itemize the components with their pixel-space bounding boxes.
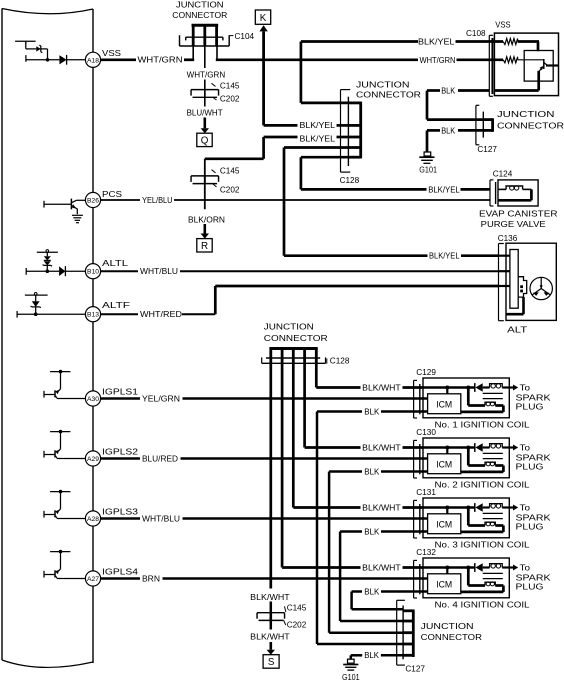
svg-text:No. 2 IGNITION COIL: No. 2 IGNITION COIL: [435, 480, 530, 490]
wire WHT/BLU from IGPLS3: [101, 517, 140, 520]
wire BLK/YEL from elbow to C108: [301, 40, 418, 43]
primary winding No.3: [490, 504, 503, 508]
wire WHT/GRN to junction connector C104: [184, 58, 194, 61]
wire YEL/BLU from PCS pin B26: [101, 199, 140, 201]
connector C108 bracket: [488, 35, 490, 96]
ECU internal ALTL double zener: [46, 252, 48, 256]
ALT ground return: [522, 297, 525, 314]
svg-text:To: To: [520, 443, 531, 453]
wire BLK/YEL from C128 to K-line: [264, 124, 298, 127]
svg-text:B13: B13: [87, 312, 99, 319]
svg-text:ICM: ICM: [436, 399, 452, 410]
svg-text:K: K: [260, 13, 267, 24]
svg-text:C129: C129: [416, 368, 436, 377]
wire to spark plug No.2: [502, 446, 513, 448]
svg-text:C127: C127: [405, 665, 425, 674]
node coil 1 secondary tap: [466, 386, 470, 390]
junction connector C127 (top) bracket: [475, 105, 477, 145]
page reference box S: [263, 655, 279, 669]
chassis ground at PCS driver: [72, 214, 83, 216]
resistor R2 in VSS sensor: [503, 57, 517, 63]
svg-text:BLK: BLK: [364, 407, 379, 417]
svg-text:CONNECTOR: CONNECTOR: [421, 632, 482, 642]
junction connector C127 (bottom) bracket: [396, 600, 398, 665]
svg-text:ALTF: ALTF: [102, 300, 130, 310]
node coil 4 secondary tap: [466, 566, 470, 570]
svg-text:A30: A30: [87, 396, 99, 403]
svg-text:CONNECTOR: CONNECTOR: [172, 10, 227, 20]
svg-text:C202: C202: [220, 94, 240, 103]
svg-text:R: R: [201, 241, 208, 252]
connector C129 bracket: [413, 380, 415, 418]
transformer core No.2: [483, 452, 503, 454]
svg-text:C202: C202: [220, 186, 240, 195]
svg-text:BLK: BLK: [364, 467, 379, 477]
wire BLK/WHT pin feed No.1: [423, 386, 475, 388]
wire ICM supply stub No.1: [446, 388, 448, 394]
arrow to R: [204, 224, 207, 234]
svg-text:WHT/BLU: WHT/BLU: [140, 266, 178, 276]
wire WHT/GRN from C104 to gauge VSS sensor: [216, 46, 218, 60]
svg-text:WHT/GRN: WHT/GRN: [420, 55, 456, 65]
connector C136 bracket: [498, 244, 500, 321]
junction connector C128 (horizontal) mating halves: [266, 357, 320, 359]
wire YEL/BLU to EVAP purge valve: [174, 199, 490, 201]
ECU pin B13: [85, 307, 100, 322]
svg-text:ALT: ALT: [507, 325, 528, 335]
svg-text:CONNECTOR: CONNECTOR: [356, 89, 421, 99]
svg-text:VSS: VSS: [102, 48, 122, 58]
junction connector C104 bus: [192, 24, 219, 27]
ICM module in No.4 coil: [428, 574, 461, 594]
junction connector C127 (top) bus: [491, 118, 494, 132]
node ALTF internal junction: [34, 312, 38, 316]
ECU internal VSS zener D and diode: [25, 41, 27, 49]
wire BLK ground from No.2 coil: [329, 470, 362, 473]
svg-text:G101: G101: [342, 673, 360, 682]
resistor R1 in VSS sensor: [503, 39, 517, 45]
svg-text:BLK: BLK: [364, 527, 379, 537]
wire BLU/WHT: [204, 90, 206, 107]
wire BLK/WHT pin feed No.4: [423, 566, 475, 568]
svg-text:BLK/WHT: BLK/WHT: [362, 503, 401, 513]
svg-text:PCS: PCS: [102, 189, 123, 199]
svg-text:JUNCTION: JUNCTION: [497, 109, 555, 119]
ECU internal VSS driver: pull-up bar: [15, 40, 35, 42]
solenoid coil in purge valve: [498, 188, 506, 190]
svg-text:IGPLS4: IGPLS4: [102, 567, 138, 577]
svg-text:CONNECTOR: CONNECTOR: [497, 120, 564, 130]
svg-text:C202: C202: [287, 620, 307, 629]
primary winding No.4: [490, 564, 503, 568]
wire WHT/GRN into C108: [457, 58, 504, 61]
wire ICM supply stub No.3: [446, 508, 448, 514]
wire BLK/YEL from C128 to EVAP valve: [301, 156, 349, 159]
svg-text:BLK: BLK: [364, 650, 379, 660]
connector C132 bracket: [413, 560, 415, 598]
svg-text:BLU/WHT: BLU/WHT: [187, 108, 223, 118]
svg-text:CONNECTOR: CONNECTOR: [264, 333, 328, 343]
secondary winding No.2: [467, 448, 470, 466]
svg-text:BLK/ORN: BLK/ORN: [188, 214, 225, 224]
ECU internal IGPLS driver transistor (row y=458.5): [50, 431, 70, 433]
svg-text:C108: C108: [466, 29, 486, 38]
svg-text:BLK/WHT: BLK/WHT: [362, 443, 401, 453]
svg-text:C145: C145: [220, 81, 240, 90]
wire BLU/RED from IGPLS2: [101, 457, 140, 460]
wire BLK from VSS sensor: [458, 89, 489, 92]
svg-text:BLU/RED: BLU/RED: [142, 454, 178, 464]
svg-text:C128: C128: [330, 357, 350, 366]
svg-text:JUNCTION: JUNCTION: [421, 621, 474, 631]
svg-text:C145: C145: [220, 166, 240, 175]
svg-text:WHT/GRN: WHT/GRN: [138, 55, 183, 65]
svg-text:IGPLS2: IGPLS2: [102, 447, 138, 457]
wire ALTF internal lead: [16, 311, 18, 318]
No.3 ignition coil box: [423, 498, 509, 538]
wire BLK/WHT to No.1 coil (leg 5): [315, 363, 318, 387]
regulator rectangle in ALT: [510, 250, 518, 309]
primary winding No.1: [490, 384, 503, 388]
connector C131 bracket: [413, 500, 415, 538]
diode in No.3 coil: [474, 503, 476, 512]
secondary winding No.4: [467, 568, 470, 586]
svg-text:JUNCTION: JUNCTION: [356, 79, 410, 89]
svg-text:BLK/WHT: BLK/WHT: [250, 592, 290, 602]
junction connector C128 (horizontal) bus: [269, 347, 317, 350]
svg-text:C127: C127: [477, 145, 497, 154]
svg-text:ICM: ICM: [436, 579, 452, 590]
connector C145/C202 (Q branch): [191, 89, 219, 91]
wire WHT/RED from ALTF pin B13: [101, 313, 138, 315]
ICM module in No.2 coil: [428, 454, 461, 474]
svg-text:BLK/WHT: BLK/WHT: [362, 563, 401, 573]
ECU internal PCS driver transistor Q: [43, 201, 45, 208]
ECU pin A30: [85, 391, 100, 406]
svg-text:PLUG: PLUG: [516, 462, 544, 472]
node VSS internal junction: [46, 58, 50, 62]
svg-text:IGPLS3: IGPLS3: [102, 507, 138, 517]
svg-text:YEL/BLU: YEL/BLU: [142, 195, 173, 205]
svg-text:A28: A28: [87, 516, 99, 523]
wire BLK ground from No.1 coil: [317, 410, 362, 413]
svg-text:C130: C130: [416, 428, 436, 437]
svg-text:To: To: [520, 383, 531, 393]
svg-text:No. 4 IGNITION COIL: No. 4 IGNITION COIL: [435, 600, 530, 610]
secondary winding No.1: [467, 388, 470, 406]
connector C145/C202 (R branch): [191, 175, 219, 177]
wire ICM supply stub No.2: [446, 448, 448, 454]
wire ALTL internal lead: [25, 268, 27, 275]
page reference box Q: [197, 133, 212, 146]
junction connector C128 bracket: [340, 90, 342, 173]
wire BLK to ground G101 (bottom): [381, 654, 403, 657]
connector C124 bracket: [489, 180, 491, 206]
svg-text:BLK/YEL: BLK/YEL: [300, 120, 336, 130]
connector C145/C202 (S branch): [270, 602, 273, 621]
wire BLK/WHT to No.2 coil (leg 4): [303, 363, 306, 447]
wire YEL/BLU junction at PCS: [204, 176, 206, 209]
wire YEL/GRN from IGPLS1: [101, 397, 140, 400]
svg-text:G101: G101: [419, 165, 437, 174]
wire BLK/YEL elbow down to junction connector C128: [300, 42, 303, 103]
wire BLK/WHT pin feed No.3: [423, 506, 475, 508]
wire BLK/WHT trunk to S branch (leg 1): [269, 363, 272, 588]
ECU pin A18: [85, 52, 100, 67]
ECU internal IGPLS driver transistor (row y=518.5): [50, 491, 70, 493]
wire BLK ground from No.3 coil: [340, 530, 362, 533]
ECU internal ALTL clamp: top bar: [37, 251, 58, 253]
diode in ALTL path: [59, 266, 65, 276]
No.2 ignition coil box: [423, 438, 509, 478]
ECU outline (torn-edge box): [1, 9, 3, 661]
wire to spark plug No.4: [502, 566, 513, 568]
wire BLK ground bus No.3 down to C127: [339, 532, 342, 622]
svg-text:BLK/WHT: BLK/WHT: [362, 383, 401, 393]
VSS sensor inner box: [524, 51, 553, 82]
wire BLK ground bus No.4 down to C127: [350, 592, 353, 610]
svg-text:JUNCTION: JUNCTION: [176, 0, 224, 10]
wire BLK/WHT to No.2 coil horizontal: [305, 446, 361, 449]
wire WHT/GRN below C104: [204, 46, 206, 68]
svg-text:A18: A18: [87, 57, 99, 64]
ECU internal IGPLS driver transistor (row y=398.5): [50, 371, 70, 373]
node ALTL internal junction: [46, 269, 50, 273]
wire BLK/YEL from C128 to ALT: [284, 146, 348, 149]
No.1 ignition coil box: [423, 378, 509, 418]
wire BLK/YEL (Q/R branch) from C128: [337, 136, 349, 139]
svg-text:BLK/YEL: BLK/YEL: [418, 37, 455, 47]
svg-text:S: S: [268, 657, 275, 668]
diode in No.1 coil: [474, 383, 476, 392]
label C104: [229, 35, 233, 37]
ECU internal ALTF clamp: top bar: [25, 294, 48, 296]
svg-text:A29: A29: [87, 456, 99, 463]
ECU internal IGPLS driver transistor (row y=578.5): [50, 551, 70, 553]
wire BLK ground bus No.2 down to C127: [328, 472, 331, 633]
svg-text:Q: Q: [201, 136, 209, 147]
svg-text:C131: C131: [416, 488, 436, 497]
ECU pin B10: [85, 264, 100, 279]
svg-text:B10: B10: [87, 269, 99, 276]
wire BRN from IGPLS4: [101, 577, 140, 580]
junction connector C128 bus: [359, 102, 362, 159]
ICM module in No.1 coil: [428, 394, 461, 414]
ECU pin A28: [85, 511, 100, 526]
junction connector C104 mating halves: [186, 36, 223, 38]
svg-text:WHT/GRN: WHT/GRN: [187, 70, 226, 80]
svg-text:BLK: BLK: [441, 85, 455, 95]
primary winding No.2: [490, 444, 503, 448]
wire down to C145/C202 (R branch): [204, 159, 206, 183]
svg-text:BLK/YEL: BLK/YEL: [300, 134, 336, 144]
svg-text:No. 3 IGNITION COIL: No. 3 IGNITION COIL: [435, 540, 530, 550]
svg-text:A27: A27: [87, 576, 99, 583]
wire BLK/WHT to No.1 coil horizontal: [316, 386, 360, 389]
wire BLK/WHT to No.4 coil horizontal: [282, 566, 360, 569]
arrow to Q: [204, 118, 207, 129]
wire BLK down to junction connector C127: [426, 91, 429, 120]
arrow to S: [269, 642, 272, 650]
wire BLK/WHT to No.3 coil horizontal: [293, 506, 360, 509]
svg-text:YEL/GRN: YEL/GRN: [142, 394, 180, 404]
svg-text:To: To: [520, 503, 531, 513]
ECU pin B26: [85, 192, 100, 207]
wire ICM supply stub No.4: [446, 568, 448, 574]
transformer core No.4: [483, 572, 503, 574]
svg-text:PLUG: PLUG: [516, 402, 544, 412]
junction connector C127 (bottom) bus: [412, 610, 415, 658]
svg-text:BLK/YEL: BLK/YEL: [428, 184, 460, 194]
wire to spark plug No.3: [502, 506, 513, 508]
node coil 2 secondary tap: [466, 446, 470, 450]
wire BLK/WHT to No.4 coil (leg 2): [281, 363, 284, 567]
ECU pin A27: [85, 571, 100, 586]
connector C130 bracket: [413, 440, 415, 478]
svg-text:No. 1 IGNITION COIL: No. 1 IGNITION COIL: [435, 420, 530, 430]
svg-text:C136: C136: [498, 234, 518, 243]
alternator symbol (3-phase): [530, 277, 552, 299]
diode in No.2 coil: [474, 443, 476, 452]
wire VSS internal lead: [25, 55, 27, 62]
wire to spark plug No.1: [502, 386, 513, 388]
svg-text:ALTL: ALTL: [102, 258, 129, 268]
wire WHT/GRN from VSS pin A18: [101, 58, 136, 61]
EVAP purge valve box: [498, 180, 538, 206]
svg-text:C132: C132: [416, 548, 436, 557]
ICM module in No.3 coil: [428, 514, 461, 534]
svg-text:PLUG: PLUG: [516, 582, 544, 592]
node coil 3 secondary tap: [466, 506, 470, 510]
svg-text:VSS: VSS: [495, 19, 511, 29]
secondary winding No.3: [467, 508, 470, 526]
transformer core No.1: [483, 392, 503, 394]
transistor in VSS sensor: [543, 59, 545, 69]
svg-text:WHT/BLU: WHT/BLU: [142, 514, 180, 524]
svg-text:BLK: BLK: [364, 587, 379, 597]
svg-text:ICM: ICM: [436, 519, 452, 530]
wire BLK/YEL up to K: [262, 31, 265, 125]
svg-text:C124: C124: [493, 169, 513, 178]
ground G101 (top): [424, 152, 431, 156]
wire BLK/WHT to No.3 coil (leg 3): [292, 363, 295, 507]
VSS sensor box: [494, 33, 558, 96]
svg-text:PLUG: PLUG: [516, 522, 544, 532]
svg-text:JUNCTION: JUNCTION: [264, 322, 314, 332]
ALT pins: [499, 255, 510, 257]
svg-text:BLK/YEL: BLK/YEL: [429, 251, 460, 261]
svg-text:IGPLS1: IGPLS1: [102, 387, 138, 397]
diode in VSS output path: [59, 55, 66, 64]
wire BLK/WHT (S branch lower): [270, 613, 273, 630]
svg-text:ICM: ICM: [436, 459, 452, 470]
svg-text:To: To: [520, 563, 531, 573]
svg-text:BLK: BLK: [441, 126, 455, 136]
label C128 (horizontal): [326, 358, 328, 363]
ALT internal connector block: [518, 277, 527, 297]
svg-text:BRN: BRN: [142, 574, 160, 584]
svg-text:B26: B26: [87, 198, 99, 205]
page reference box R: [197, 239, 212, 252]
wire BLK ground bus No.1 down to C127: [316, 412, 319, 645]
wire BLK/WHT pin feed No.2: [423, 446, 475, 448]
svg-text:EVAP CANISTER: EVAP CANISTER: [479, 209, 558, 219]
wire BLK inside VSS sensor: [537, 71, 540, 91]
No.4 ignition coil box: [423, 558, 509, 598]
wire WHT/BLU from ALTL pin B10: [101, 270, 138, 272]
svg-text:C128: C128: [340, 176, 360, 185]
page reference box K with arrow: [255, 10, 270, 24]
svg-text:C104: C104: [235, 32, 255, 41]
wire to transistor collector network: [518, 40, 539, 43]
transformer core No.3: [483, 512, 503, 514]
alternator box: [506, 243, 556, 320]
wire BLK ground from No.4 coil: [352, 590, 362, 593]
svg-text:WHT/RED: WHT/RED: [140, 309, 182, 319]
svg-text:C145: C145: [287, 604, 307, 613]
ECU pin A29: [85, 451, 100, 466]
ground G101 (bottom): [348, 659, 355, 663]
diode in No.4 coil: [474, 563, 476, 572]
svg-text:PURGE VALVE: PURGE VALVE: [481, 219, 547, 229]
svg-text:BLK/WHT: BLK/WHT: [250, 631, 290, 641]
ECU internal ALTF zener: [35, 295, 37, 301]
wire BLK to ground G101: [458, 129, 483, 132]
